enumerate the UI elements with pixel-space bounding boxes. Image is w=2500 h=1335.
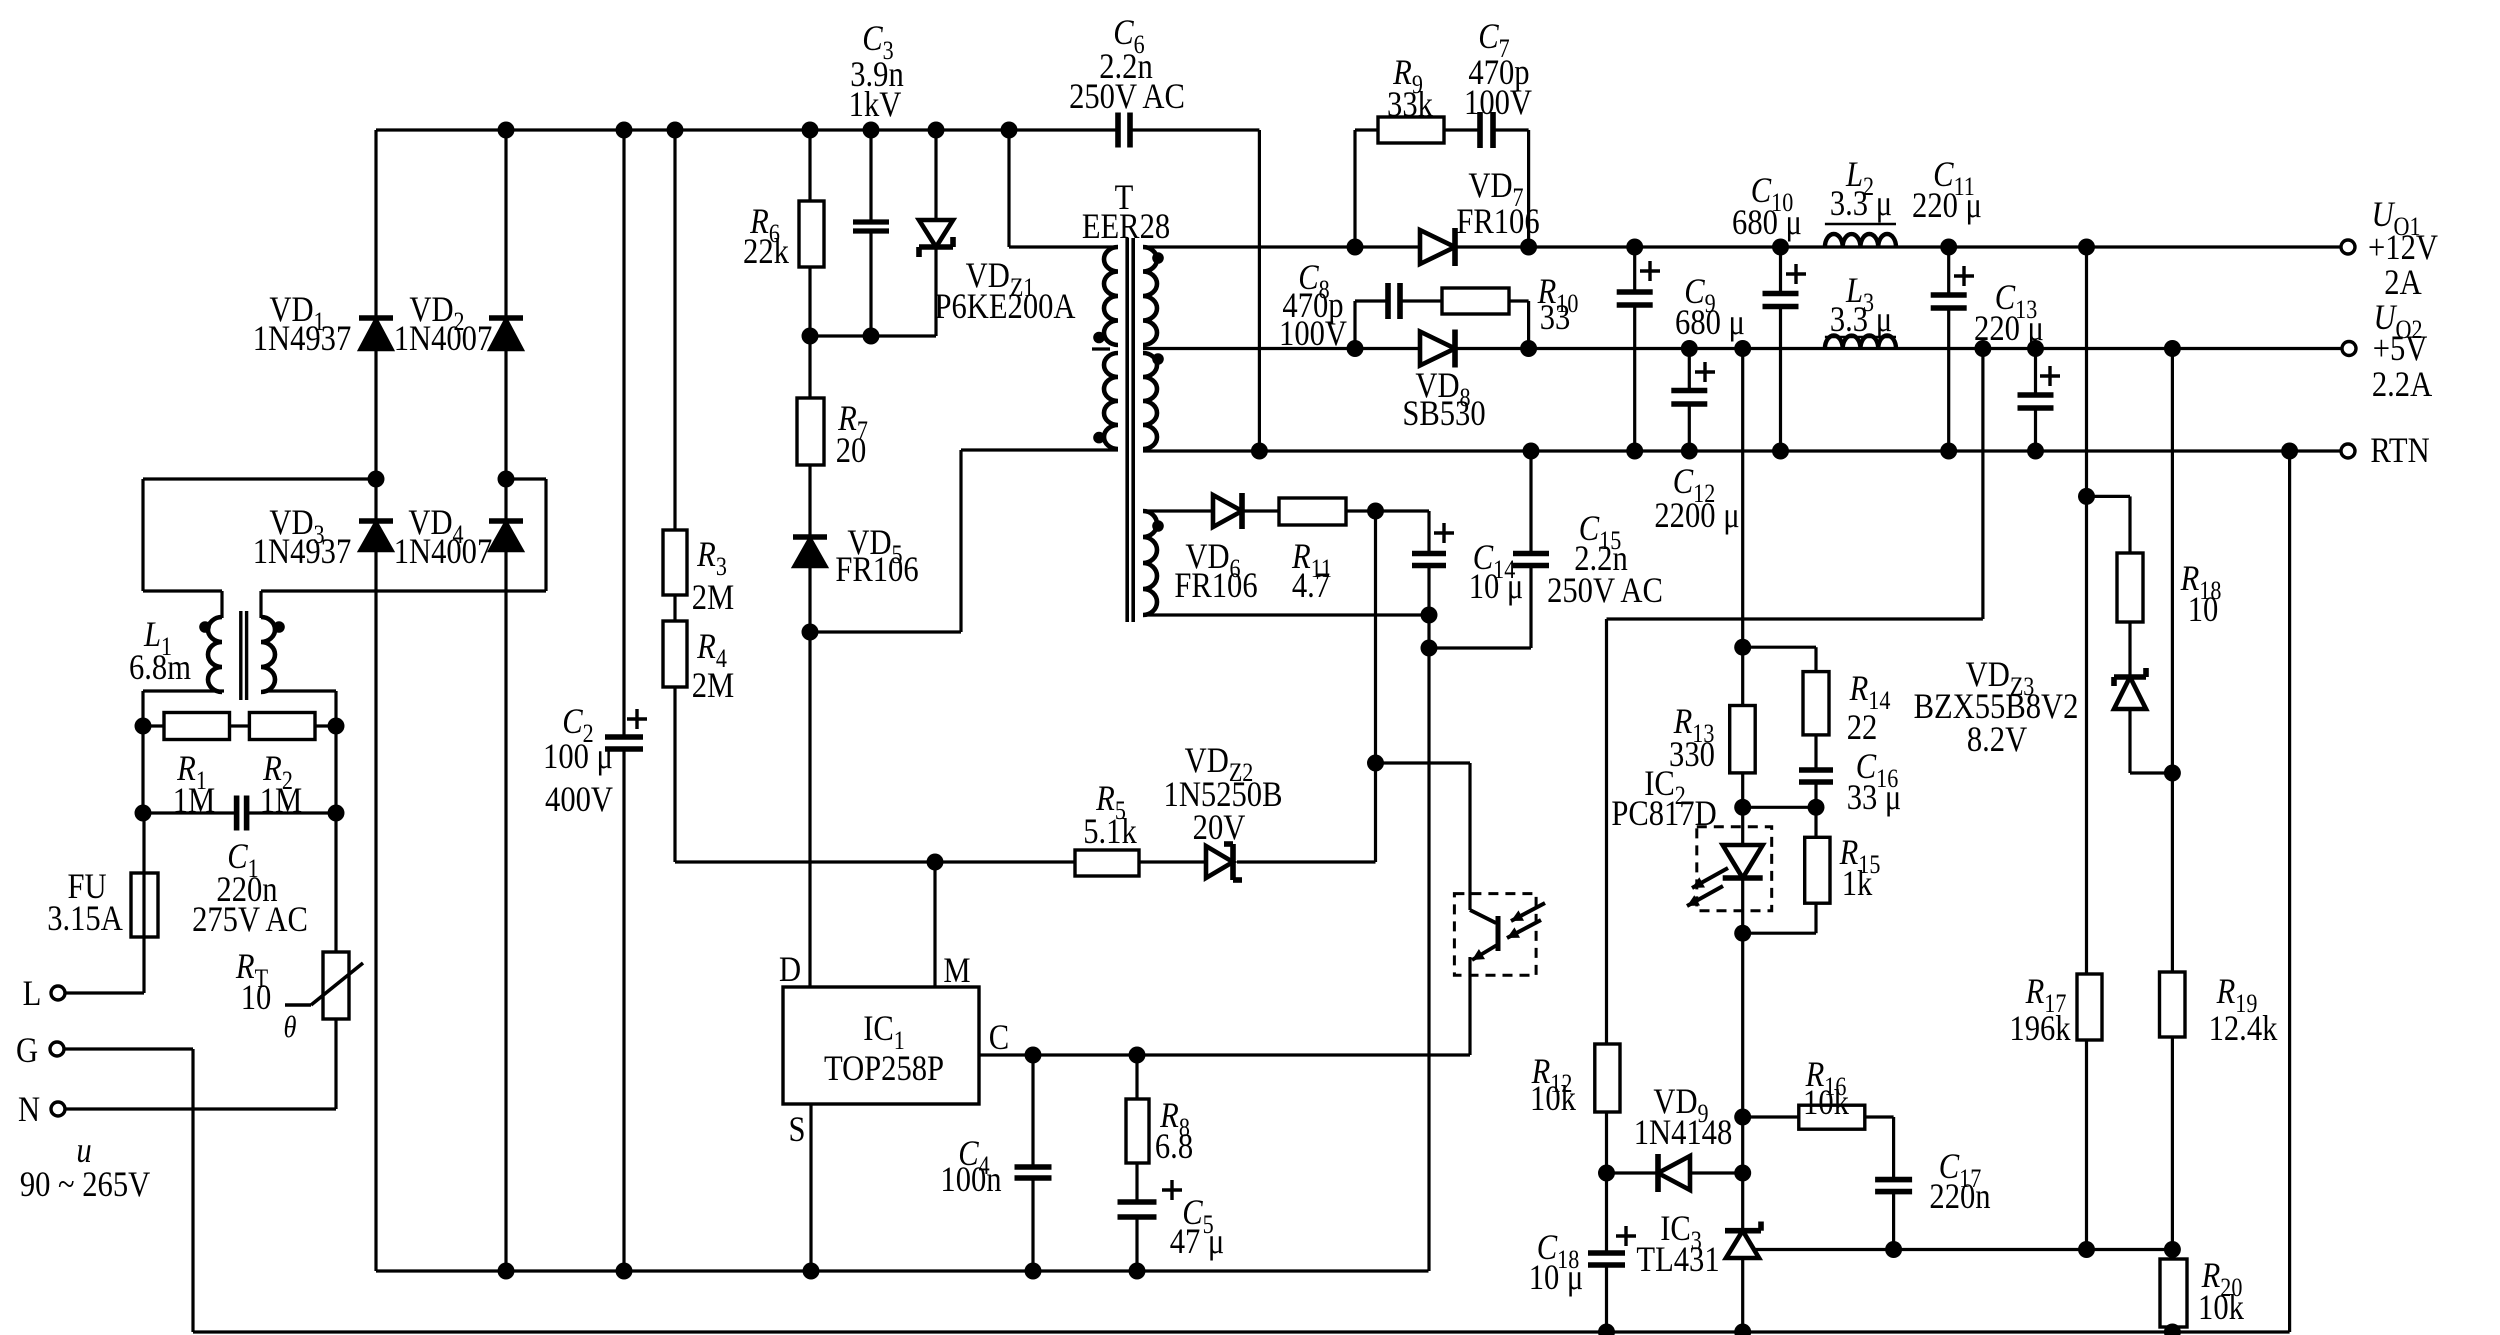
svg-text:+5V: +5V bbox=[2373, 329, 2428, 369]
svg-text:680 μ: 680 μ bbox=[1732, 203, 1802, 243]
svg-text:1kV: 1kV bbox=[849, 85, 902, 125]
wire C6 coupling branch bbox=[1258, 130, 1261, 451]
terminal G bbox=[50, 1042, 64, 1056]
resistor R10 33 bbox=[1442, 288, 1509, 314]
svg-text:250V AC: 250V AC bbox=[1547, 571, 1663, 611]
wire L1 left winding bottom to R1/C1 column bbox=[143, 691, 224, 813]
svg-text:M: M bbox=[943, 951, 970, 991]
capacitor C5 47u bbox=[1118, 1180, 1183, 1217]
terminal L bbox=[51, 986, 65, 1000]
svg-text:330: 330 bbox=[1669, 735, 1715, 775]
label UO1 +12V 2A bbox=[2368, 195, 2438, 303]
label R12 10k bbox=[1530, 1052, 1576, 1119]
capacitor C3 3.9n 1kV bbox=[853, 222, 889, 231]
resistor R2 1M bbox=[249, 713, 315, 740]
label C15 2.2n 250V AC bbox=[1547, 509, 1663, 611]
capacitor C4 100n bbox=[1015, 1047, 1052, 1272]
label N bbox=[18, 1090, 40, 1130]
diode VD8 SB530 bbox=[1420, 330, 1455, 368]
svg-text:1k: 1k bbox=[1842, 864, 1873, 904]
wire RTN to earth bbox=[2288, 451, 2291, 1332]
svg-text:20V: 20V bbox=[1193, 808, 1246, 848]
node dots earth line bbox=[1598, 1324, 2181, 1335]
label u 90~265V input voltage bbox=[20, 1131, 150, 1205]
wire AC2 node to L1 right winding bbox=[261, 479, 546, 618]
svg-text:4.7: 4.7 bbox=[1292, 566, 1330, 606]
wire R11 to C14 node bbox=[1346, 503, 1429, 520]
label R20 10k bbox=[2198, 1256, 2244, 1328]
label R10 33 bbox=[1537, 272, 1579, 338]
svg-text:+12V: +12V bbox=[2368, 228, 2438, 268]
resistor R13 330 bbox=[1730, 706, 1756, 773]
svg-text:100V: 100V bbox=[1464, 83, 1532, 123]
wire LED cathode to VD9/R16/TL431 column bbox=[1734, 933, 1751, 1230]
zener VDZ3 BZX55B8V2 bbox=[2114, 668, 2146, 709]
transformer T EER28 core bbox=[1127, 238, 1133, 622]
wire R1-R2 row bbox=[143, 724, 336, 727]
label R15 1k bbox=[1839, 833, 1881, 904]
label VD5 FR106 bbox=[835, 523, 918, 590]
label R8 6.8 bbox=[1155, 1096, 1193, 1167]
wire snubber C3 branch bbox=[869, 130, 872, 336]
wire R12 feed from +5V bbox=[1607, 349, 1983, 1333]
capacitor C1 220n 275V AC bbox=[237, 796, 247, 831]
wire +5V tap rail bbox=[1143, 347, 2342, 350]
svg-text:G: G bbox=[16, 1031, 38, 1071]
fuse FU 3.15A bbox=[131, 873, 158, 937]
resistor R6 22k bbox=[799, 201, 824, 267]
pin label C bbox=[989, 1018, 1009, 1058]
wire bottom earth line bbox=[193, 1330, 2290, 1333]
label C8 470p 100V bbox=[1279, 258, 1347, 354]
svg-text:SB530: SB530 bbox=[1402, 394, 1485, 434]
capacitor C13 220u bbox=[2018, 349, 2061, 452]
label C10 680u bbox=[1732, 171, 1802, 243]
primary phase dot upper bbox=[1093, 332, 1105, 344]
wire VD2/VD4 vertical branch bbox=[504, 130, 507, 1271]
label VDZ3 BZX55B8V2 8.2V bbox=[1914, 655, 2079, 760]
capacitor C18 10u bbox=[1588, 1226, 1636, 1265]
label RT 10 bbox=[235, 947, 296, 1045]
wire R7 branch bbox=[808, 336, 811, 537]
node dots VD7 snubber bbox=[1347, 239, 1538, 256]
wire RT branch bbox=[64, 813, 336, 1109]
resistor R19 12.4k bbox=[2160, 972, 2186, 1037]
label C4 100n bbox=[940, 1134, 1001, 1200]
label IC2 PC817D bbox=[1611, 764, 1716, 834]
node dots on DC+ bus bbox=[498, 122, 1018, 139]
svg-text:680 μ: 680 μ bbox=[1675, 303, 1745, 343]
svg-text:1N4007: 1N4007 bbox=[394, 532, 493, 572]
transformer primary winding lower half bbox=[1104, 353, 1118, 449]
resistor R20 10k bbox=[2160, 1259, 2187, 1327]
svg-text:1N4937: 1N4937 bbox=[253, 319, 352, 359]
svg-text:1M: 1M bbox=[260, 781, 302, 821]
wire clamp VDZ1 branch bbox=[934, 130, 937, 336]
label L1 6.8m bbox=[129, 615, 191, 688]
label R18 10 bbox=[2180, 559, 2222, 630]
label VD6 FR106 bbox=[1174, 537, 1257, 606]
resistor R15 1k bbox=[1805, 807, 1830, 933]
label RTN bbox=[2370, 431, 2429, 471]
diode VD4 1N4007 bbox=[489, 521, 523, 551]
wire feedback divider line to TL431 REF bbox=[1755, 1241, 2181, 1258]
svg-text:1N4937: 1N4937 bbox=[253, 532, 352, 572]
svg-text:275V AC: 275V AC bbox=[192, 900, 308, 940]
pin label M bbox=[943, 951, 970, 991]
label IC3 TL431 bbox=[1636, 1209, 1719, 1280]
svg-text:10k: 10k bbox=[1803, 1083, 1849, 1123]
svg-text:2.2A: 2.2A bbox=[2372, 365, 2432, 405]
svg-text:33 μ: 33 μ bbox=[1847, 778, 1902, 818]
pin label S bbox=[788, 1110, 805, 1150]
svg-text:90 ~ 265V: 90 ~ 265V bbox=[20, 1165, 150, 1205]
svg-text:8.2V: 8.2V bbox=[1967, 720, 2027, 760]
label C11 220u bbox=[1912, 155, 1982, 226]
svg-text:2200 μ: 2200 μ bbox=[1654, 496, 1739, 536]
label C14 10u bbox=[1469, 538, 1524, 607]
wire L1 right winding bottom to R2/C1 column bbox=[263, 691, 336, 813]
IC1 TOP258P body bbox=[783, 987, 979, 1104]
wire M pin to sense line bbox=[933, 862, 936, 987]
transformer secondary winding 5V section bbox=[1143, 353, 1157, 449]
label L bbox=[23, 974, 42, 1014]
terminal UO1 +12V bbox=[2341, 240, 2355, 254]
node AC2 junction of VD2/VD4 bbox=[498, 471, 515, 488]
secondary phase dot upper bbox=[1152, 252, 1164, 264]
svg-text:θ: θ bbox=[284, 1010, 297, 1044]
wire +12V rail bbox=[1143, 245, 2341, 248]
inductor L3 3.3u bbox=[1825, 336, 1896, 349]
svg-text:100V: 100V bbox=[1279, 314, 1347, 354]
svg-text:20: 20 bbox=[836, 431, 867, 471]
svg-text:S: S bbox=[788, 1110, 805, 1150]
transformer bias winding bbox=[1143, 511, 1157, 615]
wire secondary common rail bbox=[1143, 449, 2341, 452]
svg-text:6.8: 6.8 bbox=[1155, 1127, 1193, 1167]
wire VD5 to IC1 drain and primary return bbox=[802, 450, 1119, 987]
svg-text:10: 10 bbox=[241, 978, 272, 1018]
diode VD5 FR106 bbox=[793, 537, 827, 567]
inductor L2 3.3u bbox=[1825, 234, 1896, 247]
wire snubber bottom link bbox=[802, 328, 937, 345]
svg-text:1N4007: 1N4007 bbox=[394, 319, 493, 359]
diode VD3 1N4937 bbox=[359, 521, 393, 551]
wire snubber R6 branch bbox=[808, 130, 811, 336]
svg-text:3.15A: 3.15A bbox=[47, 899, 123, 939]
resistor R5 5.1k bbox=[1075, 850, 1139, 876]
snubber C8/R10 over VD8 bbox=[1355, 301, 1529, 349]
label C12 2200u bbox=[1654, 462, 1739, 536]
capacitor C11 220u bbox=[1931, 247, 1974, 451]
wire C1 row bbox=[143, 811, 336, 814]
wire R13/R14 feed from +5V bbox=[1734, 349, 1751, 706]
diode VD2 1N4007 bbox=[489, 318, 523, 350]
label VD2 1N4007 bbox=[394, 290, 493, 359]
label R7 20 bbox=[836, 399, 868, 471]
svg-text:2A: 2A bbox=[2384, 263, 2421, 303]
resistor R17 196k bbox=[2077, 974, 2102, 1040]
wire DC+ bus to transformer primary top bbox=[1009, 130, 1118, 247]
wire G to earth line bbox=[63, 1049, 193, 1332]
resistor R8 6.8 with C5 bbox=[1126, 1047, 1149, 1272]
label C17 220n bbox=[1929, 1147, 1990, 1217]
svg-text:FR106: FR106 bbox=[1174, 566, 1257, 606]
secondary phase dot lower bbox=[1152, 353, 1164, 365]
node dot LED cathode / R15 bbox=[1734, 925, 1816, 942]
wire R17 sense branch from +12V bbox=[2078, 247, 2095, 1250]
wire primary DC- bus bbox=[376, 1263, 1429, 1280]
label C7 470p 100V bbox=[1464, 17, 1532, 123]
label VDZ1 P6KE200A bbox=[934, 256, 1075, 327]
label VD7 FR106 bbox=[1456, 166, 1539, 242]
resistor R12 10k bbox=[1595, 1044, 1620, 1112]
diode VD9 1N4148 bbox=[1598, 1154, 1743, 1192]
transformer secondary winding 12V section bbox=[1143, 247, 1157, 345]
svg-text:100 μ: 100 μ bbox=[543, 737, 613, 777]
svg-text:10 μ: 10 μ bbox=[1469, 567, 1524, 607]
terminal UO2 +5V bbox=[2342, 342, 2356, 356]
wire bias winding return bbox=[1143, 607, 1438, 624]
label R13 330 bbox=[1669, 702, 1715, 775]
capacitor C16 33u bbox=[1799, 770, 1833, 782]
label C5 47u bbox=[1170, 1193, 1225, 1262]
zener VDZ2 1N5250B 20V bbox=[1206, 844, 1242, 880]
label R1 1M bbox=[173, 749, 215, 821]
svg-text:400V: 400V bbox=[545, 780, 613, 820]
label R4 2M bbox=[692, 627, 734, 706]
node dots VD8 snubber bbox=[1347, 340, 1538, 357]
wire R14/C16 branch bbox=[1743, 647, 1816, 807]
label C9 680u bbox=[1675, 272, 1745, 343]
snubber R9/C7 over VD7 bbox=[1355, 130, 1529, 247]
wire AC1 node to L1 left winding bbox=[143, 479, 376, 618]
label FU 3.15A bbox=[47, 867, 123, 939]
label VD8 SB530 bbox=[1402, 366, 1485, 434]
svg-text:L: L bbox=[23, 974, 42, 1014]
label C6 2.2n 250V AC bbox=[1069, 13, 1185, 117]
label VD4 1N4007 bbox=[394, 503, 493, 572]
label VDZ2 1N5250B 20V bbox=[1164, 741, 1283, 848]
svg-text:196k: 196k bbox=[2009, 1009, 2070, 1049]
wire R13/R14 bottom link bbox=[1734, 799, 1824, 816]
svg-text:TL431: TL431 bbox=[1636, 1240, 1719, 1280]
wire primary centre tap stub bbox=[1092, 347, 1110, 350]
svg-text:RTN: RTN bbox=[2370, 431, 2429, 471]
resistor R9 33k bbox=[1378, 117, 1444, 143]
node AC1 junction of VD1/VD3 bbox=[368, 471, 385, 488]
label C3 3.9n 1kV bbox=[849, 19, 904, 125]
capacitor C12 2200u bbox=[1671, 349, 1715, 452]
wire R5/VDZ2 sense line bbox=[675, 854, 1376, 871]
node dots +12V rail bbox=[1626, 239, 2095, 256]
svg-text:22: 22 bbox=[1847, 708, 1878, 748]
capacitor C6 2.2n 250V AC bbox=[1118, 113, 1130, 148]
capacitor C10 680u bbox=[1763, 247, 1807, 451]
label C13 220u bbox=[1974, 278, 2044, 349]
label R14 22 bbox=[1847, 669, 1891, 748]
label R9 33k bbox=[1387, 53, 1433, 125]
label G bbox=[16, 1031, 38, 1071]
svg-text:N: N bbox=[18, 1090, 40, 1130]
svg-text:C: C bbox=[989, 1018, 1009, 1058]
capacitor C9 680u bbox=[1617, 247, 1660, 451]
capacitor C17 220n bbox=[1875, 1180, 1912, 1192]
label VD1 1N4937 bbox=[253, 290, 352, 359]
label C18 10u bbox=[1529, 1228, 1584, 1298]
resistor R11 4.7 bbox=[1279, 498, 1346, 525]
diode VD7 FR106 bbox=[1420, 228, 1455, 266]
resistor R16 10k bbox=[1743, 1105, 1894, 1249]
resistor R7 20 bbox=[797, 398, 824, 465]
capacitor C7 470p 100V bbox=[1480, 112, 1493, 148]
svg-text:6.8m: 6.8m bbox=[129, 648, 191, 688]
wire phototransistor collector to bias node bbox=[1367, 511, 1470, 894]
node dot VDZ3 to R19 column bbox=[2164, 765, 2181, 782]
svg-text:FR106: FR106 bbox=[835, 550, 918, 590]
resistor R3 2M bbox=[663, 530, 687, 595]
capacitor C14 10u bias reservoir bbox=[1412, 511, 1454, 1271]
node dots common rail bbox=[1251, 443, 2298, 460]
label C1 220n 275V AC bbox=[192, 837, 308, 940]
thermistor RT 10 bbox=[285, 952, 363, 1019]
label R19 12.4k bbox=[2209, 972, 2278, 1049]
capacitor C8 470p 100V bbox=[1388, 283, 1400, 319]
svg-text:1M: 1M bbox=[173, 781, 215, 821]
svg-text:250V AC: 250V AC bbox=[1069, 77, 1185, 117]
svg-text:2M: 2M bbox=[692, 666, 734, 706]
label R3 2M bbox=[692, 535, 734, 618]
terminal N bbox=[51, 1102, 65, 1116]
label UO2 +5V 2.2A bbox=[2372, 298, 2432, 405]
zener VDZ1 P6KE200A bbox=[919, 220, 953, 257]
label T EER28 bbox=[1082, 178, 1170, 247]
wire phototransistor emitter to IC1 C pin bbox=[979, 975, 1470, 1055]
terminal RTN bbox=[2341, 444, 2355, 458]
wire S pin to DC- bus bbox=[809, 1104, 812, 1271]
shunt regulator IC3 TL431 bbox=[1725, 1222, 1761, 1333]
capacitor C15 2.2n 250V AC Y-cap bbox=[1421, 451, 1550, 657]
svg-text:3.3 μ: 3.3 μ bbox=[1830, 184, 1892, 224]
bias winding phase dot bbox=[1152, 520, 1164, 532]
pin label D bbox=[779, 950, 801, 990]
label L3 3.3u bbox=[1825, 271, 1896, 340]
node dots R1/R2 rows bbox=[135, 718, 345, 822]
resistor R18 10 bbox=[2117, 553, 2143, 622]
optocoupler IC2 LED in dashed box bbox=[1697, 773, 1772, 933]
label C2 100u 400V bbox=[543, 702, 613, 820]
label R17 196k bbox=[2009, 972, 2070, 1049]
label R16 10k bbox=[1803, 1055, 1849, 1123]
svg-text:2M: 2M bbox=[692, 578, 734, 618]
svg-text:P6KE200A: P6KE200A bbox=[934, 287, 1075, 327]
resistor R1 1M bbox=[164, 713, 230, 740]
svg-text:TOP258P: TOP258P bbox=[824, 1049, 944, 1089]
svg-text:33: 33 bbox=[1540, 298, 1571, 338]
label IC1 TOP258P bbox=[824, 1009, 944, 1089]
label L2 3.3u bbox=[1825, 155, 1896, 224]
transformer primary winding upper half bbox=[1104, 247, 1118, 345]
LED emission arrows bbox=[1687, 868, 1728, 906]
svg-text:220n: 220n bbox=[1929, 1177, 1990, 1217]
wire R19/R20 divider branch from +5V bbox=[2171, 349, 2174, 1333]
wire VD1/VD3 vertical branch bbox=[374, 130, 377, 1271]
wire R18/VDZ3 branch bbox=[2087, 496, 2173, 773]
wire R3/R4 divider branch bbox=[673, 130, 676, 862]
label R2 1M bbox=[260, 749, 302, 821]
svg-text:10: 10 bbox=[2188, 590, 2219, 630]
diode VD6 FR106 bias rectifier bbox=[1143, 493, 1279, 529]
svg-text:100n: 100n bbox=[940, 1160, 1001, 1200]
svg-text:10 μ: 10 μ bbox=[1529, 1258, 1584, 1298]
label VD3 1N4937 bbox=[253, 503, 352, 572]
diode VD1 1N4937 bbox=[359, 318, 393, 350]
node dots +5V rail bbox=[1681, 340, 2181, 357]
svg-text:3.3 μ: 3.3 μ bbox=[1830, 300, 1892, 340]
svg-text:22k: 22k bbox=[743, 232, 789, 272]
label R5 5.1k bbox=[1083, 779, 1137, 852]
label R6 22k bbox=[743, 202, 789, 272]
resistor R14 22 bbox=[1803, 672, 1829, 735]
svg-text:1N4148: 1N4148 bbox=[1634, 1113, 1733, 1153]
label VD9 1N4148 bbox=[1634, 1082, 1733, 1153]
svg-text:33k: 33k bbox=[1387, 85, 1433, 125]
svg-text:12.4k: 12.4k bbox=[2209, 1009, 2278, 1049]
svg-text:10k: 10k bbox=[2198, 1288, 2244, 1328]
phototransistor received-light arrows bbox=[1507, 903, 1545, 938]
svg-text:D: D bbox=[779, 950, 801, 990]
label C16 33u bbox=[1847, 747, 1902, 818]
wire top DC+ bus bbox=[376, 128, 1259, 131]
svg-text:47 μ: 47 μ bbox=[1170, 1222, 1225, 1262]
resistor R4 2M bbox=[663, 621, 687, 687]
svg-text:220 μ: 220 μ bbox=[1912, 186, 1982, 226]
svg-text:EER28: EER28 bbox=[1082, 207, 1170, 247]
capacitor C2 100u 400V with branch bbox=[605, 130, 647, 1271]
svg-text:5.1k: 5.1k bbox=[1083, 812, 1137, 852]
svg-text:10k: 10k bbox=[1530, 1079, 1576, 1119]
primary phase dot lower bbox=[1093, 432, 1105, 444]
wire C1 row to fuse bbox=[64, 813, 144, 993]
label R11 4.7 bbox=[1291, 537, 1332, 606]
optocoupler IC2 phototransistor in dashed box bbox=[1454, 894, 1536, 976]
common-mode choke L1 6.8m bbox=[199, 611, 285, 700]
